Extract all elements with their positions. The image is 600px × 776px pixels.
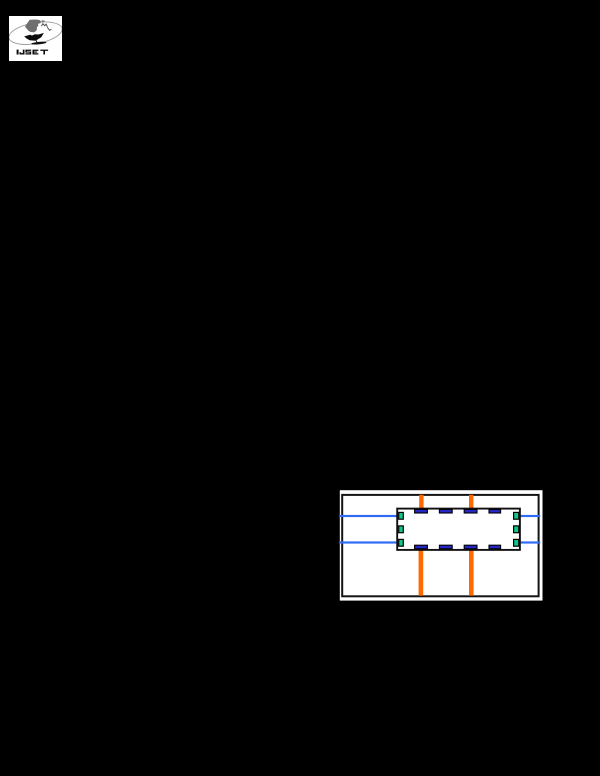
wire: right feed line 1 (blue) [520, 515, 540, 517]
pin: green pad left 1 [399, 512, 404, 519]
logo text letter E [33, 50, 39, 55]
wire: left feed line 1 (blue) [339, 515, 397, 517]
stub: orange via line bottom 1 [419, 550, 424, 596]
logo text letter S [25, 50, 31, 55]
pin: green pad left 2 [399, 526, 404, 533]
pin: green pad right 3 [514, 539, 519, 546]
pad: navy dash top 1 [415, 509, 428, 513]
logo globe landmass (gray, upper) [25, 20, 41, 33]
pin: green pad right 2 [514, 526, 519, 533]
logo globe right check mark [47, 27, 51, 30]
substrate boundary (outer black frame) [342, 495, 538, 596]
pad: navy dash top 4 [489, 509, 501, 513]
pad: navy dash bottom 4 [489, 545, 501, 549]
logo text letter T [40, 50, 48, 55]
stub: orange via line top 1 [419, 495, 423, 509]
stub: orange via line bottom 2 [469, 550, 474, 596]
wire: right feed line 2 (blue) [520, 541, 540, 543]
logo globe stem [35, 41, 38, 43]
chip body U1 [397, 509, 520, 550]
pin: green pad right 1 [514, 512, 519, 519]
pad: navy dash bottom 3 [464, 545, 477, 549]
wire: left feed line 2 (blue) [339, 541, 397, 543]
logo orbit ring [7, 18, 64, 48]
logo globe landmass (black, lower boat shape) [24, 33, 44, 41]
logo globe right zigzag mark [41, 24, 47, 27]
pin: green pad left 3 [399, 539, 404, 546]
pad: navy dash bottom 1 [415, 545, 428, 549]
pad: navy dash top 2 [439, 509, 452, 513]
logo text letter J [20, 50, 25, 55]
logo text letter I [17, 50, 19, 55]
logo box (white background of IJSET logo) [9, 16, 62, 61]
logo globe group [7, 18, 64, 48]
logo globe shadow ellipse [31, 41, 46, 45]
pad: navy dash top 3 [464, 509, 477, 513]
pad: navy dash bottom 2 [439, 545, 452, 549]
figure background (white panel) [340, 490, 543, 600]
logo globe landmass top-right piece (gray) [42, 20, 45, 22]
stub: orange via line top 2 [469, 495, 473, 509]
